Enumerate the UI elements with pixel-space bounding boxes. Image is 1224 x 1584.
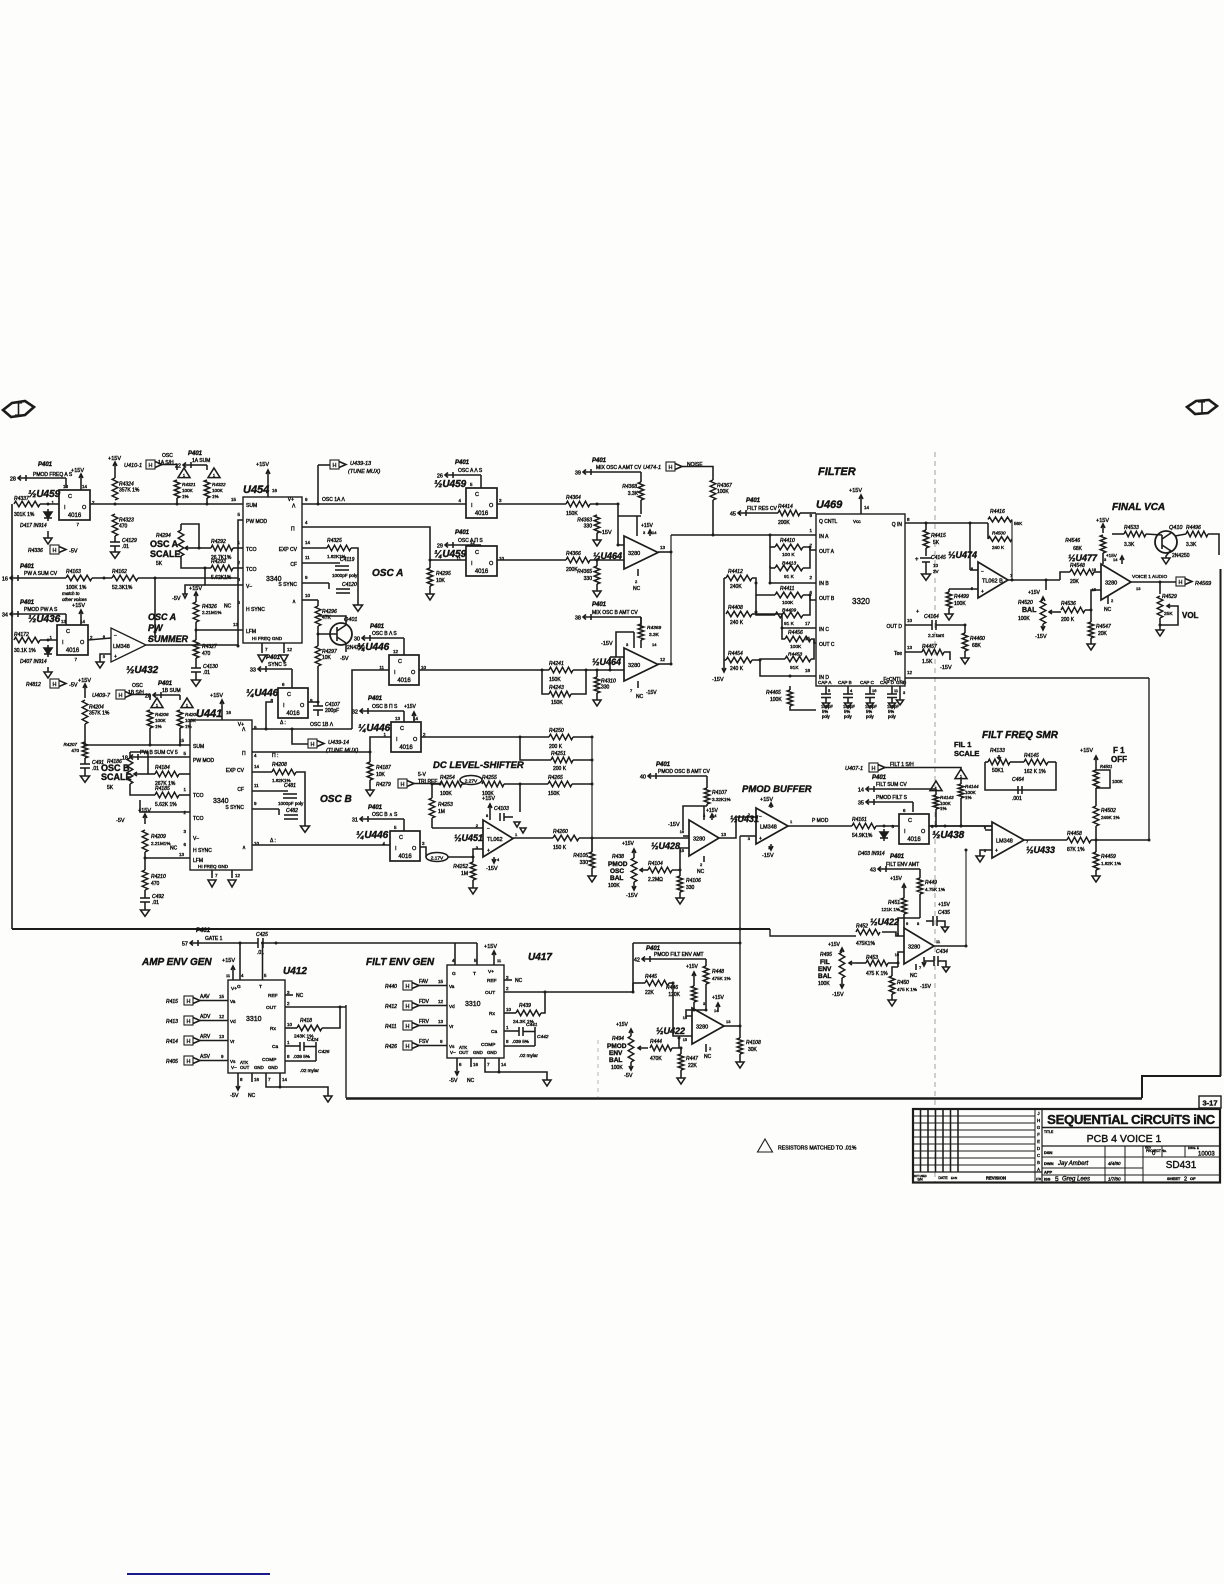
svg-text:P401: P401 — [368, 696, 383, 702]
svg-text:MIX OSC A AMT CV: MIX OSC A AMT CV — [596, 465, 642, 471]
svg-text:100K: 100K — [155, 718, 167, 723]
svg-text:O: O — [921, 829, 926, 835]
svg-text:-15V: -15V — [940, 665, 952, 671]
svg-text:-15V: -15V — [832, 992, 844, 998]
svg-text:U469: U469 — [816, 499, 843, 511]
wire — [888, 962, 898, 964]
resistor R4310 — [594, 677, 600, 693]
svg-text:H: H — [187, 1039, 191, 1045]
svg-text:Π: Π — [291, 527, 295, 533]
wire U464b output — [658, 663, 671, 665]
svg-text:14: 14 — [254, 764, 260, 769]
svg-text:U454: U454 — [243, 484, 269, 496]
power +15V U441 — [221, 700, 223, 720]
svg-text:SCALE: SCALE — [101, 772, 132, 782]
op-amp U477 — [1101, 564, 1131, 600]
power -15V — [1042, 624, 1044, 630]
svg-text:OUT: OUT — [485, 990, 495, 996]
svg-text:D417 IN914: D417 IN914 — [20, 523, 47, 529]
capacitor C4152 150pF — [847, 686, 849, 694]
svg-text:4/4/80: 4/4/80 — [1108, 1161, 1121, 1166]
svg-text:330: 330 — [686, 885, 695, 891]
svg-text:TCO: TCO — [246, 547, 257, 553]
pin2 NC U477 — [1107, 596, 1109, 604]
svg-text:IN B: IN B — [819, 581, 829, 587]
svg-text:14: 14 — [413, 716, 419, 721]
svg-text:OSC B ∧ S: OSC B ∧ S — [372, 812, 398, 818]
resistor R4454 — [726, 657, 752, 663]
svg-text:C: C — [287, 692, 291, 698]
resistor R450 — [892, 967, 898, 976]
wire + input — [740, 835, 756, 837]
ground — [543, 1080, 551, 1086]
resistor R4408 — [726, 611, 752, 617]
svg-text:240 K: 240 K — [730, 620, 744, 626]
svg-text:NC: NC — [910, 973, 918, 979]
svg-text:OUT D: OUT D — [887, 624, 903, 630]
IC U412 (3310 env gen) — [228, 980, 285, 1073]
svg-text:+15V: +15V — [256, 462, 269, 468]
svg-text:OSC A: OSC A — [372, 568, 403, 579]
svg-text:P401: P401 — [266, 655, 281, 661]
svg-text:Jay Ambert: Jay Ambert — [1057, 1161, 1088, 1167]
svg-text:R4546: R4546 — [1065, 538, 1080, 544]
svg-text:FILT ENV AMT: FILT ENV AMT — [886, 862, 919, 868]
svg-text:R4408: R4408 — [728, 605, 743, 611]
svg-text:C: C — [400, 726, 404, 732]
mix node vertical — [670, 535, 672, 664]
resistor R4460 — [964, 625, 966, 633]
svg-text:R4207: R4207 — [63, 742, 77, 747]
svg-text:200 K: 200 K — [1061, 617, 1075, 623]
svg-text:BAL: BAL — [610, 875, 623, 882]
resistor R4409 — [775, 612, 803, 618]
svg-text:P401: P401 — [455, 460, 470, 466]
svg-text:PMOD BUFFER: PMOD BUFFER — [742, 784, 812, 795]
svg-text:R4209: R4209 — [151, 834, 166, 840]
svg-text:12: 12 — [219, 1014, 225, 1019]
U441 gnd pins — [211, 870, 213, 878]
svg-text:3320: 3320 — [852, 597, 870, 606]
svg-text:91 K: 91 K — [784, 621, 795, 627]
svg-text:H: H — [119, 693, 123, 699]
svg-text:G: G — [452, 971, 456, 977]
svg-text:+: + — [916, 609, 919, 615]
measurement oval 2.17V — [426, 853, 448, 862]
svg-text:3V: 3V — [933, 569, 940, 574]
svg-text:15: 15 — [231, 497, 237, 502]
svg-text:13: 13 — [219, 1034, 225, 1039]
resistor R4337 — [14, 501, 40, 507]
resistor R4415 — [925, 523, 927, 530]
resistor R4208 — [252, 771, 272, 773]
svg-text:PMOD: PMOD — [608, 861, 628, 868]
svg-text:R450: R450 — [897, 980, 909, 986]
svg-text:R447: R447 — [686, 1056, 698, 1062]
svg-text:CAP B: CAP B — [838, 680, 852, 685]
svg-text:240 K: 240 K — [730, 666, 744, 672]
svg-text:12: 12 — [393, 649, 399, 654]
svg-text:R438: R438 — [612, 854, 624, 860]
wire — [929, 825, 992, 827]
wire — [302, 582, 329, 584]
svg-text:½U428: ½U428 — [651, 841, 680, 851]
resistor R4414 — [778, 510, 800, 516]
wire pulse B bus — [252, 751, 370, 753]
resistor R4143 — [933, 795, 939, 809]
op-amp U464a — [624, 536, 658, 569]
svg-text:3280: 3280 — [1105, 581, 1117, 587]
svg-text:GND: GND — [487, 1050, 497, 1055]
wire COMP U417 — [504, 1045, 535, 1047]
wire gate drops U412 — [239, 943, 241, 980]
U454 gnd pins — [261, 643, 263, 653]
svg-text:Π: Π — [242, 751, 246, 757]
svg-text:LTR: LTR — [1036, 1177, 1041, 1181]
svg-text:GND: GND — [268, 1065, 278, 1070]
ground open arrow — [366, 790, 374, 796]
svg-text:-5V: -5V — [449, 1078, 458, 1084]
svg-text:TCO: TCO — [246, 567, 257, 573]
svg-text:R445: R445 — [645, 974, 657, 980]
revision table letters column — [1034, 1109, 1036, 1182]
svg-text:FSV: FSV — [419, 1039, 429, 1045]
svg-text:13: 13 — [438, 1019, 444, 1024]
svg-text:Vr: Vr — [230, 1039, 235, 1044]
svg-text:10003: 10003 — [1198, 1152, 1215, 1158]
svg-text:R4184: R4184 — [155, 765, 170, 771]
svg-text:R452: R452 — [856, 924, 868, 930]
wire IN A bus — [671, 534, 816, 536]
svg-text:OUT: OUT — [240, 1065, 250, 1070]
svg-text:Rx: Rx — [270, 1026, 276, 1032]
svg-text:16: 16 — [254, 1077, 260, 1082]
resistor R4185 — [155, 792, 179, 798]
diode D407 — [47, 645, 49, 648]
wire — [154, 578, 156, 632]
resistor R4161 — [852, 823, 876, 829]
ground — [192, 680, 201, 686]
wire emitter — [1166, 550, 1171, 558]
resistor R4502 chain — [1095, 826, 1097, 840]
svg-text:3.3K: 3.3K — [1186, 542, 1197, 548]
svg-text:150K: 150K — [566, 511, 578, 517]
wire — [497, 559, 566, 561]
svg-text:OSC A: OSC A — [148, 612, 176, 622]
wire U474 out — [1008, 579, 1060, 581]
resistor R4105 — [591, 838, 593, 852]
svg-text:R4105: R4105 — [573, 853, 588, 859]
wire Tee — [905, 651, 922, 653]
svg-text:R495: R495 — [820, 952, 832, 958]
resistor R4456 — [785, 636, 811, 642]
svg-text:H: H — [406, 1004, 410, 1010]
capacitor C492 — [140, 897, 150, 899]
svg-text:BAL: BAL — [1022, 607, 1037, 614]
resistor R4547 — [1090, 610, 1092, 622]
svg-text:H: H — [669, 465, 673, 471]
svg-text:2.21M1%: 2.21M1% — [202, 610, 221, 615]
svg-text:H: H — [333, 463, 337, 469]
wire — [497, 503, 566, 505]
registration mark right — [1187, 400, 1217, 414]
svg-text:FILT ENV GEN: FILT ENV GEN — [366, 957, 435, 968]
svg-text:R4106: R4106 — [686, 878, 701, 884]
resistor R4411 — [775, 592, 803, 598]
svg-text:28: 28 — [10, 477, 16, 483]
resistor R4453 — [785, 656, 811, 662]
svg-text:½U436: ½U436 — [28, 614, 61, 625]
svg-text:15: 15 — [683, 1038, 687, 1042]
wire + input — [949, 588, 978, 590]
wiper R495 — [849, 961, 856, 965]
capacitor C4151 150pF — [825, 686, 827, 694]
svg-text:Q IN: Q IN — [892, 522, 903, 528]
svg-text:IN C: IN C — [819, 627, 829, 633]
svg-text:C: C — [475, 492, 479, 498]
svg-text:FILT SUM CV: FILT SUM CV — [876, 782, 907, 788]
svg-text:½U477: ½U477 — [1068, 553, 1098, 563]
svg-text:IN A: IN A — [819, 534, 829, 540]
svg-text:+15V: +15V — [616, 1022, 628, 1028]
svg-text:COMP: COMP — [262, 1057, 276, 1063]
svg-text:J: J — [1037, 1111, 1039, 1116]
svg-text:10K: 10K — [322, 655, 332, 661]
svg-text:O: O — [411, 670, 416, 676]
resistor R4187 — [369, 752, 371, 762]
svg-text:APP: APP — [1044, 1170, 1053, 1175]
svg-text:½U459: ½U459 — [434, 479, 467, 490]
svg-text:4.75K 1%: 4.75K 1% — [925, 887, 945, 892]
svg-text:ASV: ASV — [200, 1054, 211, 1060]
-15V ladder bus — [723, 578, 725, 663]
svg-text:R4322: R4322 — [212, 482, 226, 487]
svg-text:249K 1%: 249K 1% — [1101, 815, 1120, 820]
svg-text:11: 11 — [254, 783, 259, 788]
wire U431 out P MOD — [788, 825, 852, 827]
wire — [448, 856, 473, 858]
op-amp U432 (PW summer) — [88, 638, 111, 640]
ground open arrow — [736, 1062, 744, 1068]
svg-text:GATE 1: GATE 1 — [205, 936, 223, 942]
svg-text:+: + — [915, 557, 919, 563]
svg-text:D403 IN914: D403 IN914 — [858, 851, 885, 857]
resistor R4293 — [211, 565, 233, 571]
feedback loop U464a — [618, 515, 641, 517]
svg-text:R4145: R4145 — [1024, 753, 1039, 759]
ground open arrow — [676, 898, 684, 904]
svg-text:330: 330 — [601, 685, 610, 691]
svg-text:18: 18 — [122, 756, 128, 762]
pin2 NC — [637, 569, 639, 576]
svg-text:-15V: -15V — [712, 677, 724, 683]
svg-text:+: + — [487, 848, 490, 854]
svg-text:.01: .01 — [92, 766, 99, 772]
svg-text:OSC 1A Λ: OSC 1A Λ — [322, 497, 345, 503]
svg-text:87K 1%: 87K 1% — [1067, 847, 1085, 853]
svg-text:14: 14 — [82, 484, 88, 489]
svg-text:R4243: R4243 — [549, 685, 564, 691]
svg-text:22: 22 — [175, 464, 181, 470]
svg-text:½U433: ½U433 — [1026, 845, 1055, 855]
svg-text:4016: 4016 — [68, 513, 82, 519]
svg-text:V+: V+ — [488, 969, 494, 975]
ground open arrow — [945, 614, 953, 620]
svg-text:43: 43 — [870, 868, 876, 874]
svg-text:16: 16 — [680, 830, 684, 834]
svg-text:ARV: ARV — [200, 1034, 211, 1040]
warning triangle — [208, 468, 220, 478]
svg-text:68K: 68K — [1073, 546, 1083, 552]
svg-text:OUT C: OUT C — [819, 642, 835, 648]
svg-text:-5V: -5V — [69, 683, 78, 689]
svg-text:470: 470 — [202, 651, 211, 657]
svg-text:R4336: R4336 — [28, 548, 43, 554]
ground open arrow — [1156, 630, 1164, 636]
svg-text:D: D — [1037, 1146, 1040, 1151]
svg-text:ECN: ECN — [951, 1176, 957, 1180]
power -15V U422b — [923, 957, 925, 966]
svg-text:R444: R444 — [650, 1039, 662, 1045]
svg-text:R412: R412 — [385, 1004, 397, 1010]
op-amp U464b — [624, 648, 658, 681]
svg-text:H: H — [401, 782, 405, 788]
wire — [672, 848, 689, 870]
resistor R4366 — [566, 557, 590, 563]
svg-text:-5V: -5V — [624, 1073, 633, 1079]
svg-text:10: 10 — [305, 593, 311, 598]
warning triangle — [955, 769, 967, 779]
svg-text:1M: 1M — [438, 809, 445, 815]
svg-text:+15V: +15V — [222, 958, 235, 964]
svg-text:R4459: R4459 — [1101, 854, 1116, 860]
svg-text:240 K: 240 K — [992, 545, 1005, 550]
wire — [969, 523, 971, 570]
svg-text:Va: Va — [449, 984, 455, 989]
wire U432 out — [146, 644, 238, 646]
svg-text:10: 10 — [287, 1022, 293, 1027]
svg-text:13: 13 — [395, 716, 401, 721]
svg-text:3280: 3280 — [628, 663, 640, 669]
svg-text:P401: P401 — [592, 458, 607, 464]
mix vertical node — [591, 737, 593, 852]
svg-text:PMOD OSC B AMT CV: PMOD OSC B AMT CV — [658, 769, 711, 775]
warning triangle — [181, 698, 193, 708]
svg-text:Q CNTL: Q CNTL — [819, 519, 838, 525]
svg-text:+15V: +15V — [210, 693, 223, 699]
svg-text:-15V: -15V — [1035, 634, 1047, 640]
svg-text:3280: 3280 — [693, 837, 705, 843]
svg-text:10: 10 — [907, 618, 913, 623]
svg-text:470K: 470K — [650, 1056, 662, 1062]
analog switch U446c (4016) — [278, 688, 308, 718]
svg-text:3.3K: 3.3K — [628, 491, 639, 497]
ground open arrow — [1092, 876, 1100, 882]
svg-text:C: C — [68, 494, 72, 500]
flag U439-14 TUNE MUX — [292, 729, 308, 744]
resistor R439 — [504, 1012, 516, 1014]
resistor R4458 — [1067, 837, 1091, 843]
svg-text:OSC B: OSC B — [320, 794, 352, 805]
svg-text:150 K: 150 K — [553, 845, 567, 851]
svg-text:FIL 1: FIL 1 — [954, 740, 971, 749]
resistor R4265 — [548, 781, 572, 787]
svg-text:R440: R440 — [385, 984, 397, 990]
svg-text:R4250: R4250 — [549, 728, 564, 734]
svg-text:+15V: +15V — [686, 964, 698, 970]
capacitor C4153 150pF — [869, 686, 871, 694]
resistor R4325 — [302, 547, 327, 549]
svg-text:1%: 1% — [182, 494, 189, 499]
svg-text:+15V: +15V — [622, 841, 634, 847]
wire collector — [318, 616, 346, 625]
ground open arrow — [593, 700, 601, 706]
svg-text:R4411: R4411 — [780, 586, 795, 592]
svg-text:12: 12 — [287, 647, 293, 652]
svg-text:1B SUM: 1B SUM — [162, 688, 181, 694]
svg-text:P401: P401 — [158, 681, 173, 687]
svg-text:C442: C442 — [537, 1034, 549, 1040]
pot R4529 VOL — [1159, 582, 1161, 594]
svg-text:+15V: +15V — [712, 995, 724, 1001]
svg-text:Vcc: Vcc — [853, 519, 861, 524]
wire — [252, 808, 279, 810]
svg-text:R4292: R4292 — [211, 539, 226, 545]
resistor R4322 — [204, 480, 210, 498]
svg-text:REVISION: REVISION — [986, 1176, 1006, 1181]
svg-text:12: 12 — [907, 670, 913, 675]
svg-text:1A SUM: 1A SUM — [192, 458, 210, 464]
comp diodes — [514, 822, 526, 833]
resistor R4533 — [1124, 531, 1146, 537]
wire Q IN — [905, 522, 988, 524]
svg-text:R4254: R4254 — [440, 775, 455, 781]
svg-text:-15V: -15V — [762, 853, 774, 859]
resistor R4367 — [710, 480, 716, 500]
svg-text:25K: 25K — [1164, 611, 1173, 617]
border step — [1142, 1076, 1221, 1098]
wire pulse A out — [302, 527, 466, 560]
svg-text:32: 32 — [352, 710, 358, 716]
svg-text:H: H — [406, 984, 410, 990]
wire U412 OUT — [285, 1006, 346, 1008]
svg-text:R4364: R4364 — [566, 495, 581, 501]
svg-text:SYNC S: SYNC S — [268, 662, 287, 668]
svg-text:R4410: R4410 — [780, 538, 795, 544]
svg-text:poly: poly — [866, 714, 875, 719]
svg-text:R4260: R4260 — [553, 829, 568, 835]
svg-text:poly: poly — [844, 714, 853, 719]
svg-text:R4500: R4500 — [992, 531, 1006, 536]
svg-text:3310: 3310 — [246, 1016, 262, 1023]
left border wire — [11, 504, 13, 929]
resistor R4145 — [1024, 759, 1048, 765]
svg-text:20: 20 — [145, 694, 151, 700]
svg-text:200 K: 200 K — [553, 766, 567, 772]
svg-text:R4454: R4454 — [728, 651, 743, 657]
svg-text:PW MOD: PW MOD — [246, 519, 267, 525]
svg-text:R4812: R4812 — [26, 682, 41, 688]
svg-text:10: 10 — [506, 1007, 512, 1012]
svg-text:.039 5%: .039 5% — [293, 1054, 310, 1059]
svg-text:1%: 1% — [965, 795, 972, 800]
capacitor C481 — [252, 790, 288, 792]
border corner vertical — [345, 1005, 347, 1098]
svg-text:+15V: +15V — [72, 603, 85, 609]
svg-text:R449: R449 — [925, 880, 937, 886]
svg-text:120K: 120K — [668, 992, 680, 998]
resistor R4206 — [147, 710, 153, 728]
